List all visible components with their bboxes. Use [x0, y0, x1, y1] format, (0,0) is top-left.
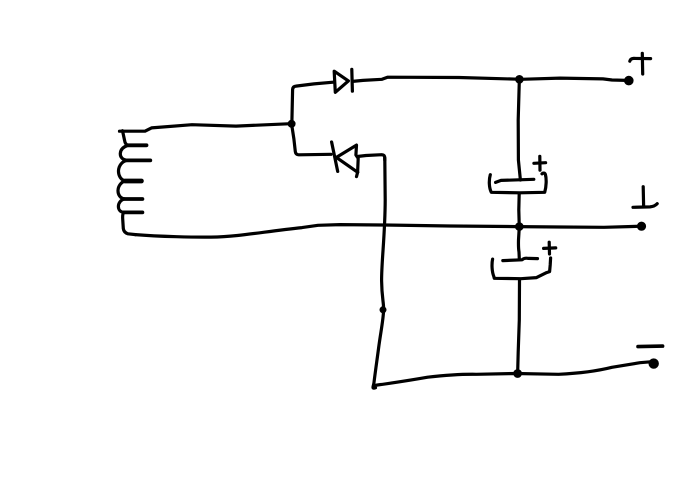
capacitor C2 top plate: [503, 258, 538, 260]
ground output symbol: [642, 187, 646, 206]
capacitor C1 top plate: [496, 179, 534, 182]
capacitor C2 polarity +: [548, 242, 551, 254]
wire: D2 anode to corner: [358, 155, 384, 160]
capacitor C2 bottom plate: [492, 258, 551, 279]
+ output label: [641, 53, 645, 74]
+ terminal dot: [626, 77, 632, 83]
capacitor C1 polarity +: [538, 156, 541, 170]
wire: capacitor C2 bottom to junction D: [518, 280, 520, 371]
pen blob on vertical wire: [381, 308, 385, 312]
wire: junction B down to capacitor C1: [518, 81, 520, 180]
wire: C1 to junction C: [517, 193, 521, 224]
bottom wire: negative rail to - terminal: [375, 362, 651, 386]
capacitor C1 bottom plate: [489, 173, 546, 193]
wire: junction C down to capacitor C2: [517, 229, 521, 259]
diode D1 cathode bar: [350, 69, 354, 91]
transformer winding L1 spine: [118, 131, 136, 235]
transformer winding L1 tooth 5: [123, 210, 142, 214]
junction C: [517, 224, 522, 229]
junction D: [515, 371, 521, 377]
middle wire: transformer bottom / center rail to ground terminal: [136, 225, 639, 238]
wire: junction A up to diode D1 anode: [292, 82, 333, 121]
- output label: [638, 344, 663, 348]
wire: junction A down to diode D2 cathode: [292, 126, 331, 155]
transformer winding L1 tooth 4: [124, 197, 142, 201]
diode D1: [334, 71, 348, 92]
transformer winding L1 tooth 1: [128, 143, 146, 147]
wire: junction B to + terminal: [521, 78, 627, 80]
junction A: [289, 121, 294, 126]
wire: transformer top terminal to junction A: [120, 124, 292, 132]
diode D2 cathode bar: [332, 142, 338, 171]
wire: D1 cathode to junction B: [353, 77, 518, 81]
transformer winding L1 tooth 2: [127, 158, 151, 162]
diode D2 triangle: [336, 145, 358, 177]
ground terminal dot: [639, 223, 645, 229]
wire: D2 output vertical down: [373, 158, 385, 388]
transformer winding L1 tooth 3: [125, 179, 141, 184]
- terminal dot: [650, 360, 657, 367]
junction B: [517, 77, 522, 82]
